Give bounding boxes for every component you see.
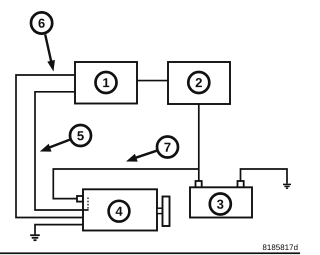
numeral 2 bbox=[196, 78, 202, 87]
callout circle 3 bbox=[210, 194, 231, 215]
box 2 (component 2) bbox=[168, 62, 230, 104]
wire from solenoid terminal of component 4 up and right to battery feed node bbox=[53, 169, 199, 199]
numeral 6 bbox=[39, 19, 45, 28]
leader arrow 5 shaft bbox=[49, 140, 70, 148]
callout circle 2 bbox=[188, 72, 209, 93]
callout circle 4 bbox=[109, 201, 130, 222]
figure number 8185817d bbox=[263, 244, 298, 250]
numeral 5 bbox=[77, 131, 84, 140]
battery negative terminal post bbox=[238, 181, 244, 188]
wire from box 1 (upper left) down left side to component 4 bbox=[16, 75, 83, 218]
callout 7 bbox=[126, 137, 178, 162]
callout circle 6 bbox=[31, 12, 52, 33]
leader arrow 7 shaft bbox=[136, 151, 157, 158]
callout 6 bbox=[31, 12, 55, 71]
ground symbol (left, engine ground) bbox=[30, 235, 40, 240]
ground wire from component 4 bbox=[35, 225, 83, 235]
numeral 1 bbox=[103, 78, 109, 87]
internal dashed lead bbox=[87, 198, 89, 211]
leader arrow 7 head bbox=[126, 154, 138, 162]
callout circle 7 bbox=[157, 137, 178, 158]
numeral 7 bbox=[164, 143, 170, 152]
numeral 3 bbox=[217, 200, 223, 209]
battery positive terminal post bbox=[196, 181, 202, 188]
callout circle 1 bbox=[96, 72, 117, 93]
wire from battery negative terminal to chassis ground bbox=[241, 169, 288, 184]
numeral 4 bbox=[116, 207, 123, 216]
callout circle 5 bbox=[70, 125, 91, 146]
box 1 (component 1) bbox=[75, 62, 137, 104]
battery body bbox=[190, 187, 252, 217]
wire from box 1 (lower left) down to component 4 bbox=[35, 92, 89, 210]
mounting flange bar bbox=[163, 197, 170, 227]
leader arrow 6 head bbox=[47, 60, 55, 72]
drive coupling bbox=[157, 208, 163, 213]
battery (component 3) bbox=[190, 181, 252, 218]
wire stub inside starter to dashed lead bbox=[83, 209, 89, 211]
bottom rule bbox=[0, 252, 300, 254]
leader arrow 5 head bbox=[40, 144, 52, 152]
leader arrow 6 shaft bbox=[45, 35, 51, 63]
solenoid terminal block bbox=[77, 196, 83, 202]
callout 5 bbox=[40, 125, 91, 152]
wire from box 2 bottom to battery positive terminal bbox=[198, 104, 200, 182]
starter body bbox=[83, 189, 157, 230]
wire from box 1 to box 2 bbox=[137, 80, 168, 82]
ground symbol (right, chassis ground) bbox=[283, 184, 291, 188]
starter motor (component 4) bbox=[77, 189, 170, 230]
